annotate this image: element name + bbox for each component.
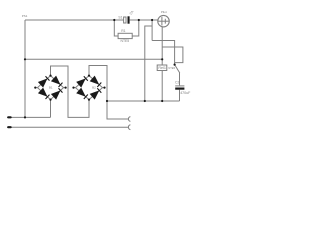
svg-text:R1: R1 xyxy=(121,29,125,33)
svg-text:NTE5: NTE5 xyxy=(168,66,175,70)
svg-text:NTE5: NTE5 xyxy=(121,39,130,43)
svg-text:B2: B2 xyxy=(92,86,96,90)
svg-text:C2: C2 xyxy=(175,81,179,85)
svg-text:PS1: PS1 xyxy=(22,14,28,18)
svg-text:470uF: 470uF xyxy=(180,91,191,95)
svg-text:Rel1: Rel1 xyxy=(158,66,166,70)
svg-text:2A: 2A xyxy=(129,9,135,15)
svg-text:S1: S1 xyxy=(118,15,122,19)
svg-text:B1: B1 xyxy=(49,86,53,90)
svg-text:Pilot: Pilot xyxy=(161,10,167,14)
